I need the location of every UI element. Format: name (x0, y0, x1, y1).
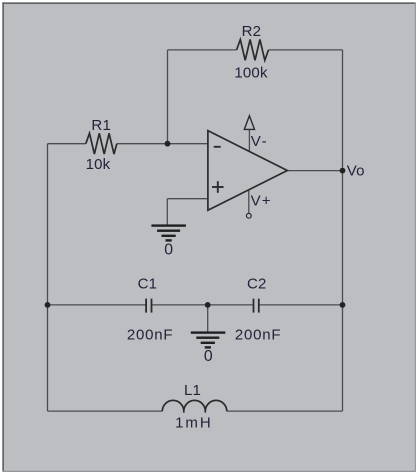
svg-text:Vo: Vo (347, 163, 365, 180)
svg-text:R2: R2 (242, 23, 262, 40)
svg-text:R1: R1 (91, 117, 111, 134)
svg-text:1mH: 1mH (175, 415, 213, 432)
svg-text:V-: V- (251, 133, 269, 150)
svg-text:0: 0 (164, 242, 173, 259)
svg-text:200nF: 200nF (127, 327, 174, 344)
svg-text:10k: 10k (86, 156, 111, 173)
svg-text:C2: C2 (247, 275, 267, 292)
svg-text:0: 0 (204, 348, 213, 365)
svg-text:100k: 100k (234, 64, 268, 81)
svg-text:L1: L1 (184, 382, 201, 399)
svg-text:200nF: 200nF (235, 327, 282, 344)
svg-text:V+: V+ (251, 193, 272, 210)
svg-text:C1: C1 (138, 275, 158, 292)
